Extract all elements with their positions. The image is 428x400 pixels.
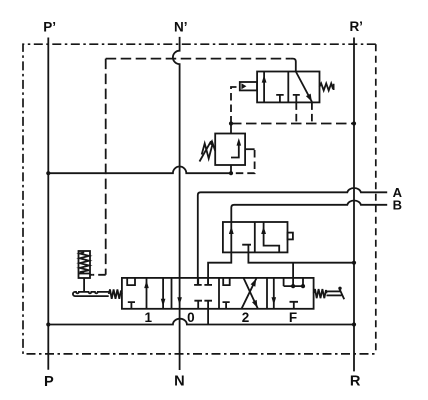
svg-text:N: N: [174, 374, 185, 390]
svg-text:B: B: [393, 197, 402, 212]
svg-text:R’: R’: [349, 19, 363, 34]
svg-text:0: 0: [187, 310, 195, 325]
svg-text:F: F: [289, 310, 297, 325]
svg-text:2: 2: [242, 310, 250, 325]
svg-text:R: R: [350, 373, 361, 389]
svg-text:P’: P’: [43, 19, 56, 34]
svg-text:P: P: [44, 374, 54, 390]
svg-text:1: 1: [144, 310, 152, 325]
svg-text:N’: N’: [174, 20, 188, 35]
